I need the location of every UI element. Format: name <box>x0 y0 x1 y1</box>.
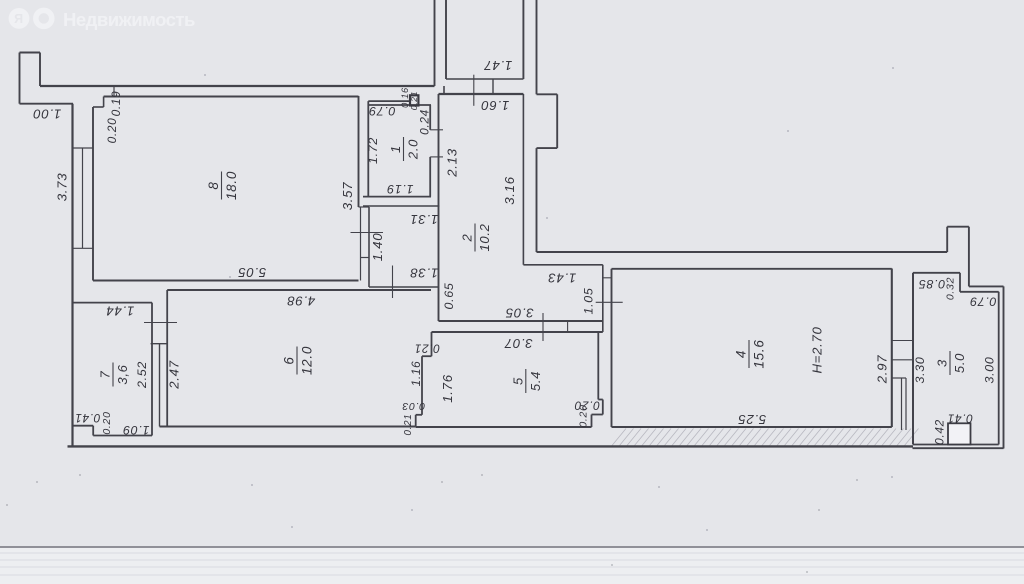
svg-text:1.38: 1.38 <box>410 265 438 280</box>
svg-text:3.00: 3.00 <box>982 357 996 384</box>
svg-text:0.85: 0.85 <box>918 277 945 291</box>
svg-text:15.6: 15.6 <box>752 339 767 368</box>
svg-text:0.42: 0.42 <box>933 419 947 445</box>
svg-text:1.09: 1.09 <box>123 423 150 437</box>
svg-text:1.44: 1.44 <box>106 304 134 319</box>
svg-text:18.0: 18.0 <box>224 171 239 200</box>
svg-text:1: 1 <box>388 145 403 153</box>
svg-text:3.57: 3.57 <box>340 182 355 210</box>
svg-text:3.07: 3.07 <box>504 336 532 351</box>
svg-text:5.05: 5.05 <box>238 265 266 280</box>
svg-text:2.52: 2.52 <box>135 361 149 389</box>
svg-text:1.16: 1.16 <box>409 361 423 387</box>
svg-text:4: 4 <box>734 350 749 358</box>
svg-text:0.19: 0.19 <box>109 91 123 117</box>
svg-text:1.60: 1.60 <box>481 98 509 113</box>
svg-text:0.21: 0.21 <box>403 414 414 436</box>
svg-text:2.47: 2.47 <box>166 360 181 389</box>
svg-text:1.76: 1.76 <box>440 374 455 402</box>
svg-text:0.41: 0.41 <box>75 411 101 425</box>
svg-text:4.98: 4.98 <box>287 294 315 309</box>
svg-text:5.0: 5.0 <box>952 353 967 373</box>
svg-text:5: 5 <box>510 377 525 385</box>
svg-text:0.65: 0.65 <box>442 283 456 310</box>
svg-text:3.30: 3.30 <box>913 357 927 384</box>
svg-text:0.41: 0.41 <box>947 411 973 425</box>
svg-text:3.73: 3.73 <box>54 173 69 201</box>
svg-text:2.13: 2.13 <box>444 148 459 177</box>
svg-text:3: 3 <box>935 359 950 367</box>
svg-text:Я: Я <box>14 12 24 26</box>
svg-text:3.05: 3.05 <box>505 305 533 320</box>
svg-text:0.21: 0.21 <box>409 91 419 111</box>
svg-text:0.20: 0.20 <box>105 118 119 144</box>
svg-text:2.0: 2.0 <box>406 139 421 160</box>
svg-text:Недвижимость: Недвижимость <box>63 9 195 30</box>
svg-text:0.20: 0.20 <box>577 404 589 427</box>
svg-text:0.24: 0.24 <box>418 109 432 135</box>
svg-text:8: 8 <box>206 181 221 189</box>
svg-text:1.40: 1.40 <box>370 233 385 261</box>
svg-text:1.19: 1.19 <box>387 182 414 196</box>
svg-text:3,6: 3,6 <box>115 364 130 384</box>
svg-text:1.05: 1.05 <box>581 288 595 315</box>
svg-text:3.16: 3.16 <box>502 176 517 204</box>
svg-text:1.47: 1.47 <box>484 58 512 73</box>
svg-text:0.79: 0.79 <box>970 295 997 309</box>
svg-text:12.0: 12.0 <box>300 346 315 375</box>
svg-text:0.20: 0.20 <box>101 411 113 434</box>
svg-text:2.97: 2.97 <box>874 355 889 384</box>
svg-text:1.43: 1.43 <box>548 271 576 286</box>
svg-text:1.00: 1.00 <box>33 107 61 122</box>
svg-text:0.03: 0.03 <box>402 400 425 412</box>
svg-text:7: 7 <box>98 370 113 378</box>
svg-text:0.32: 0.32 <box>944 277 956 300</box>
svg-text:1.31: 1.31 <box>410 212 438 227</box>
svg-text:1.72: 1.72 <box>366 137 380 164</box>
svg-text:10.2: 10.2 <box>477 223 492 251</box>
svg-text:5.4: 5.4 <box>528 371 543 391</box>
svg-text:5.25: 5.25 <box>738 412 766 427</box>
svg-text:6: 6 <box>282 356 297 364</box>
svg-text:H=2.70: H=2.70 <box>809 326 824 373</box>
svg-text:0.21: 0.21 <box>414 341 440 355</box>
svg-text:2: 2 <box>460 233 475 242</box>
svg-text:0.79: 0.79 <box>369 104 396 118</box>
